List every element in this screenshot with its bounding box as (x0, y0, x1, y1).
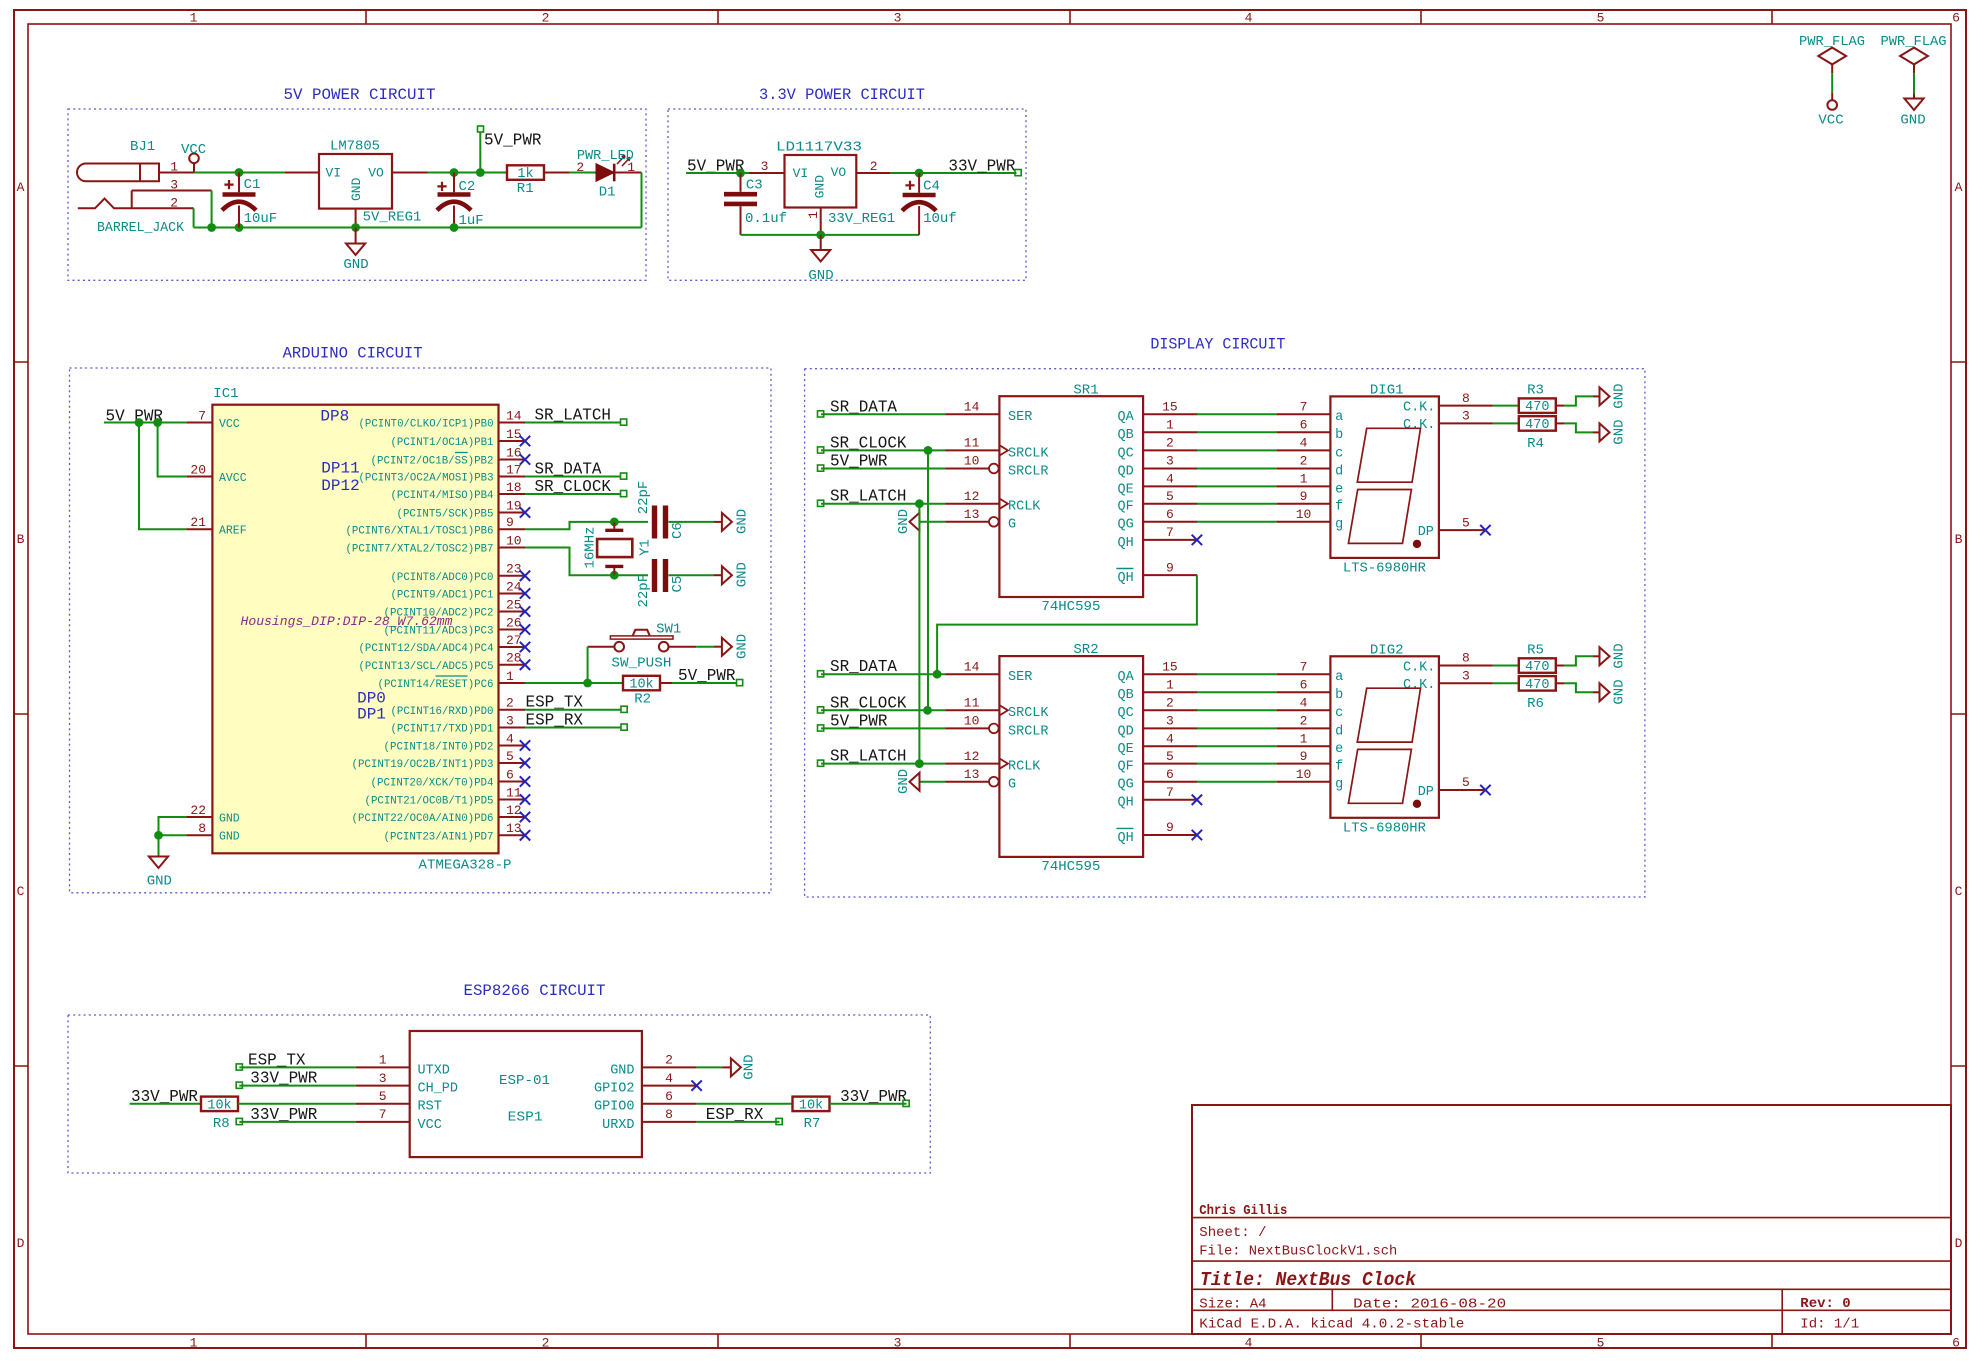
junction SR_LATCH chain (915, 759, 924, 768)
svg-text:GND: GND (1612, 419, 1628, 444)
svg-text:a: a (1335, 670, 1343, 685)
pin 10 PB7 of IC1 (346, 533, 526, 555)
svg-text:PWR_LED: PWR_LED (577, 148, 634, 164)
power symbol VCC top right (1818, 93, 1843, 129)
wire R1 to D1 (544, 172, 596, 174)
pin 7 VCC of IC1 (186, 408, 239, 431)
pin 8 URXD of ESP1 (602, 1107, 697, 1133)
svg-text:Title: NextBus Clock: Title: NextBus Clock (1200, 1269, 1417, 1291)
svg-text:Date: 2016-08-20: Date: 2016-08-20 (1353, 1296, 1506, 1312)
svg-text:7: 7 (1166, 525, 1174, 540)
svg-text:8: 8 (198, 821, 206, 836)
svg-text:QA: QA (1117, 670, 1134, 685)
svg-text:File: NextBusClockV1.sch: File: NextBusClockV1.sch (1199, 1243, 1397, 1259)
junction C3 top (736, 169, 745, 178)
wire QH-bar SR1 to SER SR2 (937, 575, 1197, 674)
pin 6 segment b of DIG2 (1277, 677, 1344, 703)
global label 5V_PWR at R2 (678, 666, 743, 686)
ground symbol GND top right (1900, 94, 1925, 129)
pin VI of LM7805 (285, 165, 341, 180)
crystal Y1 (597, 522, 632, 575)
svg-text:4: 4 (1166, 472, 1174, 487)
svg-text:GND: GND (896, 509, 912, 534)
wire GND pin 22 down (159, 817, 187, 835)
svg-text:5: 5 (1166, 489, 1174, 504)
svg-text:3: 3 (1166, 714, 1174, 729)
svg-text:4: 4 (1245, 1336, 1253, 1351)
pin 2 QC of SR1 (1117, 436, 1197, 462)
junction pin3 rail (207, 223, 216, 232)
pin 5 PD3 of IC1 (352, 749, 531, 771)
svg-text:QG: QG (1117, 778, 1133, 793)
svg-text:13: 13 (506, 821, 522, 836)
svg-text:1: 1 (506, 669, 514, 684)
global label 33V_PWR at VCC (236, 1105, 317, 1125)
wire R7 to 33V_PWR (830, 1103, 907, 1105)
svg-text:(PCINT9/ADC1)PC1: (PCINT9/ADC1)PC1 (391, 590, 494, 602)
svg-text:6: 6 (506, 767, 514, 782)
svg-text:SRCLK: SRCLK (1008, 706, 1049, 721)
pin 3 C.K. of DIG2 (1403, 669, 1493, 694)
svg-text:470: 470 (1525, 418, 1549, 433)
wire C.K. to R6 (1493, 682, 1519, 684)
pin 11 PD5 of IC1 (365, 785, 531, 807)
pin 11 SRCLK of SR1 (945, 436, 1049, 462)
svg-text:R8: R8 (213, 1116, 230, 1132)
pin 3 QD of SR2 (1117, 714, 1197, 740)
wire crystal top to C6 (614, 521, 648, 523)
svg-text:10: 10 (1296, 767, 1312, 782)
svg-text:SW1: SW1 (656, 621, 681, 637)
svg-text:C: C (1955, 884, 1963, 899)
svg-text:PWR_FLAG: PWR_FLAG (1881, 34, 1947, 50)
svg-text:(PCINT19/OC2B/INT1)PD3: (PCINT19/OC2B/INT1)PD3 (352, 759, 494, 771)
svg-text:(PCINT0/CLKO/ICP1)PB0: (PCINT0/CLKO/ICP1)PB0 (359, 419, 494, 431)
svg-text:QC: QC (1117, 446, 1133, 461)
pin 14 PB0 of IC1 (359, 408, 526, 430)
svg-text:(PCINT4/MISO)PB4: (PCINT4/MISO)PB4 (391, 490, 494, 502)
seven segment glyph top of DIG1 (1357, 428, 1420, 482)
wire D1 cathode to rail (614, 173, 641, 228)
svg-text:GND: GND (735, 562, 751, 587)
svg-text:QF: QF (1117, 500, 1133, 515)
svg-text:2: 2 (506, 696, 514, 711)
pin 15 QA of SR2 (1117, 659, 1197, 685)
svg-text:f: f (1335, 500, 1343, 515)
junction GND of regulator on rail (351, 223, 360, 232)
pin 1 PC6 of IC1 (378, 669, 526, 691)
ground symbol GND at R3 (1600, 387, 1610, 405)
seven segment glyph bottom of DIG2 (1348, 749, 1411, 803)
capacitor C2 (437, 173, 471, 228)
svg-text:7: 7 (379, 1107, 387, 1122)
svg-text:R7: R7 (804, 1116, 821, 1132)
svg-text:4: 4 (1245, 11, 1253, 26)
wire pin2 down to ground rail (193, 208, 195, 227)
pin 10 SRCLR of SR1 (945, 454, 1048, 480)
svg-text:R1: R1 (517, 181, 534, 197)
wire pin3 down to ground rail (211, 191, 213, 228)
pin 6 QG of SR2 (1117, 767, 1197, 793)
wire PWR_FLAG to GND (1913, 73, 1915, 94)
svg-text:15: 15 (1162, 400, 1178, 415)
svg-text:2: 2 (665, 1053, 673, 1068)
pin 18 PB4 of IC1 (391, 480, 526, 502)
svg-text:2: 2 (1300, 454, 1308, 469)
power symbol VCC (181, 142, 206, 173)
svg-text:(PCINT3/OC2A/MOSI)PB3: (PCINT3/OC2A/MOSI)PB3 (359, 473, 494, 485)
wire 5V_PWR to VCC pin (104, 422, 186, 424)
svg-text:GND: GND (735, 634, 751, 659)
wire C5 to GND (669, 574, 722, 576)
wire C6 to GND (669, 521, 722, 523)
svg-text:9: 9 (1166, 560, 1174, 575)
pin 4 QE of SR2 (1117, 732, 1197, 758)
svg-text:GND: GND (742, 1054, 758, 1079)
capacitor C3 (724, 173, 757, 235)
svg-text:(PCINT13/SCL/ADC5)PC5: (PCINT13/SCL/ADC5)PC5 (359, 661, 494, 673)
wire SR_CLOCK to SRCLK (821, 449, 945, 451)
svg-text:1: 1 (1166, 418, 1174, 433)
svg-text:2: 2 (870, 159, 878, 174)
pin 8 C.K. of DIG2 (1403, 651, 1493, 676)
svg-text:DIG2: DIG2 (1370, 642, 1404, 658)
svg-text:VCC: VCC (418, 1118, 442, 1133)
wire GND pin of ESP1 (697, 1066, 731, 1068)
svg-text:B: B (17, 532, 25, 547)
wire PB0 to SR_LATCH (525, 422, 621, 424)
ground symbol GND below LM7805 (346, 228, 365, 256)
pin 13 PD7 of IC1 (384, 821, 531, 843)
svg-text:8: 8 (1462, 391, 1470, 406)
svg-text:QG: QG (1117, 518, 1133, 533)
svg-text:(PCINT6/XTAL1/TOSC1)PB6: (PCINT6/XTAL1/TOSC1)PB6 (346, 526, 494, 538)
svg-text:B: B (1955, 532, 1963, 547)
wire VO to R1 (428, 172, 508, 174)
pin 21 AREF of IC1 (186, 515, 246, 538)
svg-text:QD: QD (1117, 464, 1133, 479)
capacitor C4 (902, 173, 936, 235)
ground symbol GND at R6 (1600, 683, 1610, 701)
power flag PWR_FLAG on GND (1881, 34, 1947, 73)
svg-text:13: 13 (964, 507, 980, 522)
wire branch to AREF (139, 423, 186, 530)
svg-text:SW_PUSH: SW_PUSH (611, 656, 671, 672)
svg-text:SER: SER (1008, 670, 1032, 685)
wires SR2 outputs to DIG2 segments (1197, 674, 1277, 782)
svg-text:QH: QH (1117, 571, 1133, 586)
resistor R1 (507, 165, 544, 182)
pin 23 PC0 of IC1 (391, 562, 531, 584)
svg-text:LTS-6980HR: LTS-6980HR (1343, 560, 1427, 576)
svg-text:R5: R5 (1527, 643, 1544, 659)
global label SR_LATCH at RCLK (818, 747, 907, 767)
svg-text:6: 6 (665, 1089, 673, 1104)
display DIG2 LTS-6980HR body (1330, 656, 1439, 818)
pin 5 QF of SR2 (1117, 749, 1197, 775)
ground symbol GND at G pin (910, 773, 920, 791)
svg-text:GND: GND (219, 831, 240, 844)
svg-text:9: 9 (506, 515, 514, 530)
wire 33V_PWR to VCC pin of ESP1 (239, 1121, 355, 1123)
svg-text:(PCINT14/RESET)PC6: (PCINT14/RESET)PC6 (378, 679, 494, 691)
global label SR_DATA at PB3 (535, 460, 627, 480)
pin 2 PD0 of IC1 (391, 696, 526, 718)
power flag PWR_FLAG on VCC (1799, 34, 1865, 73)
svg-text:DP: DP (1418, 525, 1434, 540)
svg-text:5V_PWR: 5V_PWR (484, 131, 542, 150)
svg-text:14: 14 (964, 400, 980, 415)
svg-text:3: 3 (1462, 669, 1470, 684)
svg-text:1uF: 1uF (459, 213, 484, 229)
pin 6 segment b of DIG1 (1277, 418, 1344, 444)
svg-text:33V_PWR: 33V_PWR (840, 1087, 907, 1106)
svg-text:DIG1: DIG1 (1370, 383, 1404, 399)
svg-text:6: 6 (1952, 1336, 1960, 1351)
svg-text:(PCINT20/XCK/T0)PD4: (PCINT20/XCK/T0)PD4 (371, 778, 494, 790)
wire branch to AVCC (158, 423, 187, 477)
svg-text:D: D (1955, 1236, 1963, 1251)
wire PB6 to crystal top row (525, 522, 614, 529)
svg-text:LD1117V33: LD1117V33 (776, 140, 862, 156)
svg-text:GND: GND (813, 175, 828, 199)
svg-text:5: 5 (1462, 515, 1470, 530)
wire PD0 to ESP_TX (525, 709, 621, 711)
global label 5V_PWR at SRCLR (818, 711, 888, 731)
wire C.K. to R3 (1493, 405, 1519, 407)
resistor R3 470 (1519, 398, 1556, 415)
svg-text:(PCINT23/AIN1)PD7: (PCINT23/AIN1)PD7 (384, 832, 494, 844)
svg-text:ARDUINO CIRCUIT: ARDUINO CIRCUIT (283, 345, 423, 363)
svg-text:AVCC: AVCC (219, 472, 247, 485)
pin 25 PC2 of IC1 (384, 597, 531, 619)
wire SW1 left contact down to reset net (587, 647, 589, 683)
svg-text:12: 12 (506, 803, 522, 818)
ground symbol GND at SW1 (722, 638, 732, 656)
svg-text:Chris Gillis: Chris Gillis (1199, 1203, 1287, 1219)
svg-text:(PCINT11/ADC3)PC3: (PCINT11/ADC3)PC3 (384, 626, 494, 638)
svg-text:C4: C4 (923, 178, 940, 194)
pin 27 PC4 of IC1 (359, 633, 531, 655)
svg-text:b: b (1335, 688, 1343, 703)
svg-text:A: A (17, 180, 25, 195)
pin 4 QE of SR1 (1117, 472, 1197, 498)
pin 17 PB3 of IC1 (359, 462, 526, 484)
capacitor C1 (222, 173, 256, 228)
global label SR_CLOCK at SRCLK (818, 433, 907, 453)
svg-text:(PCINT12/SDA/ADC4)PC4: (PCINT12/SDA/ADC4)PC4 (359, 643, 494, 655)
pin 7 QH of SR2 (1117, 785, 1197, 811)
junction SR_CLOCK chain (924, 446, 933, 455)
wire SR_LATCH chain vertical (918, 504, 920, 764)
wire SR_LATCH to RCLK (821, 503, 945, 505)
svg-text:7: 7 (1300, 659, 1308, 674)
LED D1 (596, 156, 630, 182)
shift register SR1 74HC595 body (999, 396, 1143, 597)
svg-text:GPIO2: GPIO2 (594, 1082, 635, 1097)
svg-text:IC1: IC1 (213, 386, 238, 402)
svg-text:2: 2 (1300, 714, 1308, 729)
global label 5V_PWR at SRCLR (818, 452, 888, 472)
svg-text:(PCINT2/OC1B/SS)PB2: (PCINT2/OC1B/SS)PB2 (371, 456, 494, 468)
svg-text:12: 12 (964, 489, 980, 504)
svg-text:22pF: 22pF (636, 481, 652, 515)
svg-text:QE: QE (1117, 482, 1133, 497)
svg-text:470: 470 (1525, 400, 1549, 415)
svg-text:10: 10 (1296, 507, 1312, 522)
svg-text:Y1: Y1 (638, 539, 654, 556)
svg-text:VO: VO (831, 165, 847, 180)
pin 3 QD of SR1 (1117, 454, 1197, 480)
svg-text:14: 14 (964, 659, 980, 674)
svg-text:VI: VI (793, 166, 809, 181)
pin 12 RCLK of SR1 (945, 489, 1041, 515)
pin 26 PC3 of IC1 (384, 615, 531, 637)
svg-text:C3: C3 (746, 177, 763, 193)
section dotted box arduino circuit (70, 368, 772, 893)
resistor R4 470 (1519, 416, 1556, 433)
svg-text:9: 9 (1166, 820, 1174, 835)
svg-text:17: 17 (506, 462, 522, 477)
pin 5 RST of ESP1 (356, 1089, 442, 1115)
wire R6 to GND (1556, 683, 1600, 692)
svg-text:Id: 1/1: Id: 1/1 (1800, 1317, 1859, 1333)
pin VO of LM7805 (368, 165, 427, 180)
wire SW1 right contact to GND (696, 646, 722, 648)
svg-text:6: 6 (1952, 11, 1960, 26)
decimal point dot of DIG1 (1413, 540, 1421, 548)
pin 1 segment e of DIG2 (1277, 732, 1344, 758)
pin 19 PB5 of IC1 (397, 498, 531, 520)
ground symbol GND 3.3V section (811, 235, 830, 262)
svg-text:GND: GND (896, 769, 912, 794)
svg-text:QA: QA (1117, 410, 1134, 425)
svg-text:11: 11 (506, 785, 522, 800)
pin 24 PC1 of IC1 (391, 579, 531, 601)
junction SR_CLOCK chain (923, 706, 932, 715)
svg-text:VI: VI (326, 165, 342, 180)
junction C2 top (450, 168, 459, 177)
svg-text:5V_REG1: 5V_REG1 (363, 209, 422, 225)
wire G pin to GND (920, 781, 945, 783)
svg-text:C1: C1 (244, 177, 261, 193)
svg-text:5V_PWR: 5V_PWR (678, 666, 736, 685)
svg-text:QC: QC (1117, 706, 1133, 721)
pin 12 PD6 of IC1 (352, 803, 531, 825)
seven segment glyph bottom of DIG1 (1348, 490, 1411, 544)
junction C2 bottom rail (450, 223, 459, 232)
wire R5 to GND (1556, 656, 1600, 665)
wire PB3 to SR_DATA (525, 476, 621, 478)
svg-text:33V_PWR: 33V_PWR (948, 156, 1015, 175)
switch SW1 SW_PUSH (588, 630, 697, 652)
wire PB4 to SR_CLOCK (525, 493, 621, 495)
wire VO to 33V_PWR (891, 172, 1017, 174)
svg-text:d: d (1335, 724, 1343, 739)
svg-text:VCC: VCC (181, 142, 206, 158)
svg-text:SRCLK: SRCLK (1008, 446, 1049, 461)
svg-text:ESP-01: ESP-01 (499, 1073, 550, 1089)
svg-text:(PCINT22/OC0A/AIN0)PD6: (PCINT22/OC0A/AIN0)PD6 (352, 813, 494, 825)
svg-text:2: 2 (170, 195, 178, 210)
svg-text:Size: A4: Size: A4 (1199, 1296, 1266, 1312)
pin 7 segment a of DIG1 (1277, 400, 1344, 426)
svg-text:10k: 10k (207, 1098, 231, 1113)
pin 8 C.K. of DIG1 (1403, 391, 1493, 416)
junction crystal top (610, 518, 619, 527)
global label ESP_TX at UTXD (236, 1050, 305, 1070)
svg-text:RCLK: RCLK (1008, 500, 1041, 515)
svg-text:19: 19 (506, 498, 522, 513)
wire C.K. to R5 (1493, 665, 1519, 667)
no-connect X at GPIO2 (691, 1080, 701, 1090)
pin 3 CH_PD of ESP1 (356, 1071, 458, 1097)
junction reset node (583, 679, 592, 688)
pin 1 QB of SR1 (1117, 418, 1197, 444)
svg-text:GND: GND (349, 177, 364, 201)
svg-text:22: 22 (190, 803, 206, 818)
svg-text:QD: QD (1117, 724, 1133, 739)
svg-text:3: 3 (506, 713, 514, 728)
svg-text:A: A (1955, 180, 1963, 195)
svg-text:ESP1: ESP1 (508, 1110, 543, 1126)
ground symbol GND at R4 (1600, 423, 1610, 441)
svg-text:0.1uf: 0.1uf (745, 211, 787, 227)
svg-text:BJ1: BJ1 (130, 139, 155, 155)
svg-text:1: 1 (190, 11, 198, 26)
svg-text:1: 1 (806, 211, 821, 219)
svg-text:14: 14 (506, 408, 522, 423)
pin 15 QA of SR1 (1117, 400, 1197, 426)
svg-text:(PCINT10/ADC2)PC2: (PCINT10/ADC2)PC2 (384, 608, 494, 620)
svg-text:SER: SER (1008, 410, 1032, 425)
svg-text:3: 3 (1462, 409, 1470, 424)
overline RESET on PC6 pin name (436, 675, 468, 677)
svg-text:DP1: DP1 (357, 706, 386, 724)
pin 6 GPIO0 of ESP1 (594, 1089, 697, 1115)
module ESP1 ESP-01 body (410, 1031, 642, 1157)
svg-text:GND: GND (1612, 643, 1628, 668)
svg-text:C2: C2 (459, 179, 476, 195)
wire 5V_PWR label down to node (479, 132, 481, 173)
svg-text:2: 2 (1166, 436, 1174, 451)
pin 2 GND of ESP1 (610, 1053, 696, 1079)
svg-text:1: 1 (1300, 472, 1308, 487)
wire R8 to RST (238, 1103, 356, 1105)
svg-text:23: 23 (506, 562, 522, 577)
wire R2 to 5V_PWR (660, 682, 737, 684)
svg-text:KiCad E.D.A. kicad 4.0.2-stab: KiCad E.D.A. kicad 4.0.2-stable (1199, 1317, 1464, 1333)
svg-text:33V_REG1: 33V_REG1 (828, 211, 895, 227)
svg-text:b: b (1335, 428, 1343, 443)
resistor R6 470 (1519, 676, 1556, 693)
svg-text:7: 7 (198, 408, 206, 423)
wire 5V_PWR to LD1117 VI (686, 172, 749, 174)
svg-text:2: 2 (542, 1336, 550, 1351)
svg-text:C5: C5 (670, 576, 686, 593)
pin 12 RCLK of SR2 (945, 749, 1041, 775)
svg-text:18: 18 (506, 480, 522, 495)
pin GND of LM7805 (349, 177, 364, 227)
wire URXD to ESP_RX (697, 1121, 780, 1123)
svg-text:QB: QB (1117, 688, 1133, 703)
pin 1 UTXD of ESP1 (356, 1053, 450, 1079)
svg-text:a: a (1335, 410, 1343, 425)
svg-text:3: 3 (1166, 454, 1174, 469)
svg-text:1: 1 (1300, 732, 1308, 747)
svg-text:10: 10 (964, 714, 980, 729)
wire crystal bottom to C5 (614, 574, 648, 576)
